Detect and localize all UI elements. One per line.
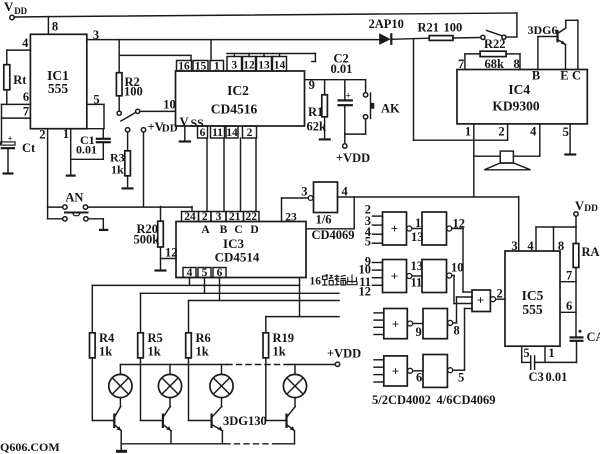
svg-text:DD: DD — [584, 204, 598, 214]
svg-text:11: 11 — [411, 276, 423, 290]
svg-text:2: 2 — [498, 125, 504, 139]
svg-text:2: 2 — [247, 127, 253, 139]
svg-text:+VDD: +VDD — [336, 151, 370, 165]
svg-text:IC4: IC4 — [508, 82, 530, 97]
svg-text:D: D — [250, 224, 258, 236]
svg-text:7: 7 — [23, 105, 29, 119]
svg-text:2: 2 — [497, 287, 503, 301]
svg-text:12: 12 — [243, 60, 255, 72]
svg-text:R22: R22 — [484, 37, 506, 51]
svg-text:KD9300: KD9300 — [492, 99, 540, 114]
svg-text:21: 21 — [229, 211, 241, 223]
svg-text:1k: 1k — [148, 345, 161, 359]
svg-text:+: + — [477, 293, 484, 308]
svg-text:Ct: Ct — [22, 141, 36, 155]
svg-text:R19: R19 — [273, 331, 295, 345]
svg-text:1k: 1k — [196, 345, 209, 359]
svg-text:Q606.COM: Q606.COM — [0, 440, 60, 454]
svg-text:14: 14 — [274, 60, 286, 72]
svg-text:0.01: 0.01 — [331, 62, 353, 76]
svg-text:4: 4 — [22, 36, 29, 50]
svg-text:0.01: 0.01 — [546, 370, 568, 384]
svg-text:15: 15 — [195, 60, 207, 72]
svg-text:C: C — [572, 69, 581, 83]
svg-text:1: 1 — [548, 346, 554, 360]
svg-text:500k: 500k — [134, 233, 160, 247]
svg-text:5: 5 — [458, 371, 464, 385]
svg-text:DD: DD — [14, 6, 27, 16]
svg-text:R6: R6 — [196, 331, 211, 345]
svg-text:IC2: IC2 — [227, 83, 249, 98]
svg-text:555: 555 — [522, 302, 543, 317]
svg-text:4/6CD4069: 4/6CD4069 — [437, 393, 496, 407]
svg-text:1/6: 1/6 — [316, 213, 332, 227]
svg-text:0.01: 0.01 — [76, 143, 97, 157]
svg-text:1: 1 — [465, 125, 471, 139]
svg-text:8: 8 — [454, 324, 460, 338]
svg-text:3DG130: 3DG130 — [223, 414, 267, 428]
svg-text:Rt: Rt — [13, 73, 27, 87]
svg-text:12: 12 — [453, 217, 466, 231]
svg-text:12: 12 — [359, 284, 372, 298]
svg-text:R21: R21 — [418, 21, 440, 35]
svg-text:+VDD: +VDD — [327, 347, 361, 361]
svg-text:CA: CA — [587, 330, 600, 344]
svg-text:1: 1 — [214, 60, 220, 72]
svg-text:3: 3 — [231, 60, 237, 72]
svg-text:23: 23 — [285, 212, 297, 224]
svg-text:4: 4 — [530, 125, 537, 139]
svg-text:5: 5 — [365, 235, 371, 249]
svg-text:C3: C3 — [529, 370, 544, 384]
svg-text:4: 4 — [527, 239, 534, 253]
svg-text:R4: R4 — [99, 331, 115, 345]
svg-text:R1: R1 — [308, 105, 323, 119]
svg-text:6: 6 — [566, 299, 572, 313]
svg-text:555: 555 — [48, 81, 69, 96]
svg-text:1: 1 — [63, 127, 69, 141]
svg-text:RA: RA — [582, 245, 600, 259]
svg-text:9: 9 — [309, 78, 315, 92]
svg-text:3: 3 — [301, 185, 307, 199]
svg-text:1k: 1k — [99, 345, 112, 359]
svg-text:CD4069: CD4069 — [312, 228, 355, 242]
svg-text:6: 6 — [416, 371, 422, 385]
svg-text:V: V — [575, 199, 584, 213]
svg-text:A: A — [201, 224, 210, 236]
svg-text:8: 8 — [558, 239, 564, 253]
svg-text:+: + — [392, 317, 399, 332]
svg-text:V: V — [180, 115, 189, 129]
svg-text:5/2CD4002: 5/2CD4002 — [372, 393, 431, 407]
svg-text:V: V — [4, 0, 14, 14]
svg-text:9: 9 — [416, 325, 422, 339]
svg-text:8: 8 — [52, 20, 58, 34]
svg-text:10: 10 — [163, 98, 176, 112]
svg-text:5: 5 — [523, 346, 529, 360]
svg-text:16: 16 — [310, 276, 322, 288]
svg-text:13: 13 — [411, 259, 424, 273]
svg-text:B: B — [532, 69, 540, 83]
svg-text:E: E — [560, 69, 568, 83]
svg-text:+: + — [391, 269, 398, 284]
svg-text:AK: AK — [381, 102, 400, 116]
svg-text:+: + — [391, 221, 398, 236]
svg-text:62k: 62k — [307, 120, 327, 134]
svg-text:24: 24 — [184, 211, 196, 223]
svg-text:CD4516: CD4516 — [211, 102, 258, 117]
svg-text:16: 16 — [178, 60, 190, 72]
svg-text:2: 2 — [39, 128, 45, 142]
svg-text:R5: R5 — [148, 331, 163, 345]
svg-text:AN: AN — [65, 191, 83, 205]
svg-text:100: 100 — [124, 85, 143, 99]
svg-text:13: 13 — [411, 230, 424, 244]
svg-text:6: 6 — [200, 127, 206, 139]
svg-text:12: 12 — [165, 246, 178, 260]
svg-text:10: 10 — [451, 261, 464, 275]
svg-text:13: 13 — [258, 60, 270, 72]
svg-text:22: 22 — [246, 211, 258, 223]
svg-text:7: 7 — [566, 269, 572, 283]
svg-text:3: 3 — [216, 211, 222, 223]
svg-text:3DG6: 3DG6 — [528, 23, 558, 37]
svg-text:2AP10: 2AP10 — [369, 17, 404, 31]
svg-text:100: 100 — [444, 21, 463, 35]
svg-text:B: B — [220, 224, 228, 236]
svg-text:CD4514: CD4514 — [215, 250, 260, 265]
svg-text:1k: 1k — [273, 345, 286, 359]
svg-text:C: C — [234, 224, 242, 236]
svg-text:1: 1 — [415, 216, 421, 230]
svg-text:11: 11 — [212, 127, 223, 139]
svg-text:14: 14 — [226, 127, 238, 139]
svg-text:3: 3 — [511, 239, 517, 253]
svg-text:+: + — [392, 364, 399, 379]
svg-text:IC5: IC5 — [522, 288, 544, 303]
svg-text:2: 2 — [202, 211, 208, 223]
svg-text:6: 6 — [23, 90, 29, 104]
svg-text:1k: 1k — [111, 163, 124, 177]
svg-text:5: 5 — [563, 125, 569, 139]
